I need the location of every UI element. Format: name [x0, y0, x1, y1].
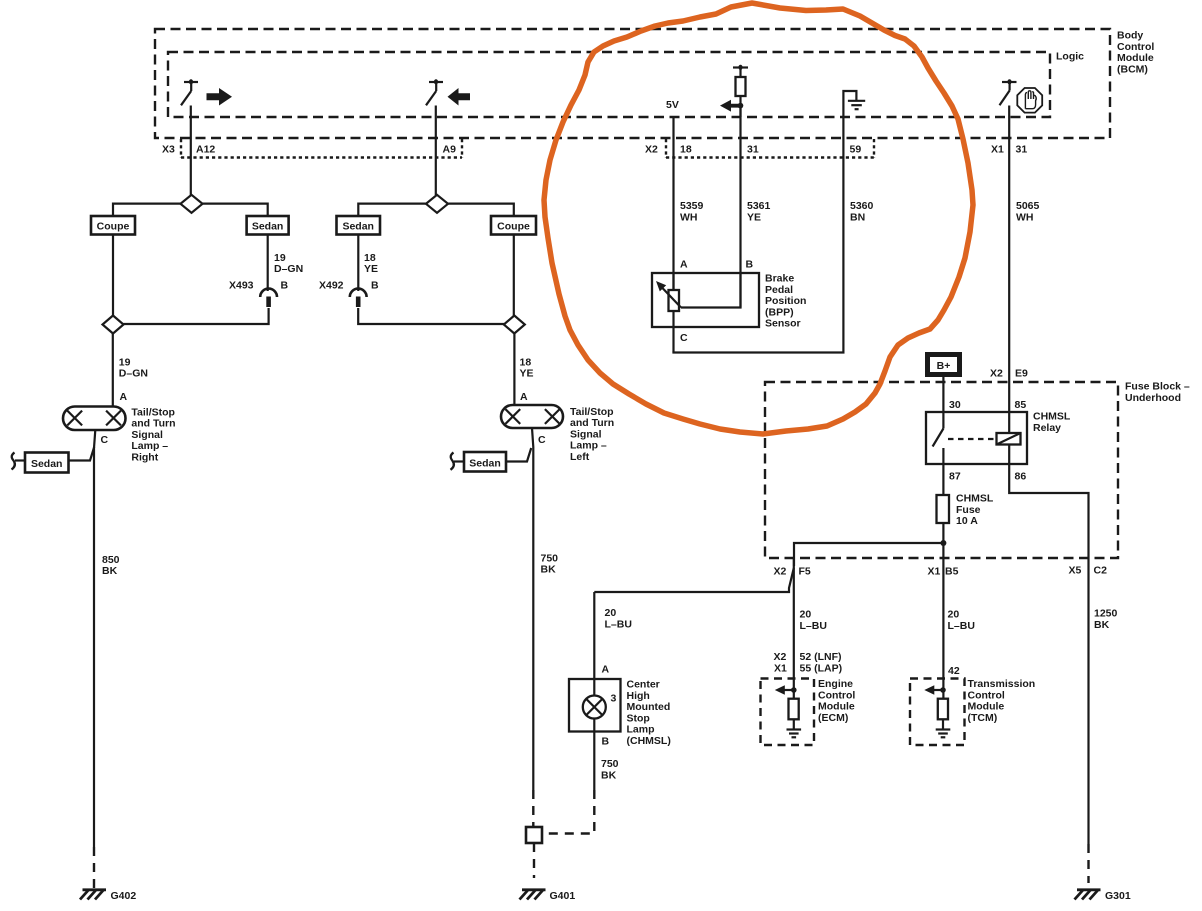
ground G402 — [80, 890, 136, 902]
BPP sensor label — [765, 273, 806, 330]
wire 850 BK lamp C to ground — [94, 430, 95, 847]
wire 20 L-BU to CHMSL lamp A — [593, 592, 595, 679]
splice diamond S101 (right-turn feed) — [181, 195, 203, 213]
svg-text:(ECM): (ECM) — [818, 712, 848, 724]
svg-text:CHMSL: CHMSL — [956, 493, 994, 505]
svg-text:B: B — [746, 259, 754, 271]
svg-text:WH: WH — [1016, 212, 1034, 224]
potentiometer in BPP sensor — [656, 273, 681, 353]
svg-text:Tail/Stop: Tail/Stop — [131, 406, 175, 418]
connector X2|E9 label — [990, 368, 1028, 380]
svg-text:WH: WH — [680, 212, 698, 224]
CHMSL lamp — [569, 664, 671, 748]
sedan box (right lamp branch) — [247, 216, 289, 235]
svg-text:B: B — [602, 736, 610, 748]
wire X2 F5 to ECM — [793, 558, 795, 699]
svg-text:B+: B+ — [937, 360, 951, 372]
arrow into node (signal sense) — [720, 100, 741, 112]
wire fuse to junction and TCM — [942, 523, 944, 699]
wire relay 86 to X5 C2 — [1009, 445, 1088, 559]
svg-text:18: 18 — [680, 144, 692, 156]
dashed lead to splice square — [532, 790, 534, 827]
svg-text:C: C — [101, 434, 109, 446]
sedan off-page box (left lamp C) — [451, 448, 532, 472]
svg-text:C: C — [680, 332, 688, 344]
svg-text:86: 86 — [1015, 471, 1027, 483]
resistor (ECM internal) — [789, 699, 799, 720]
svg-text:Relay: Relay — [1033, 422, 1061, 434]
svg-text:750: 750 — [601, 758, 619, 770]
tail/stop and turn signal lamp - right — [63, 406, 176, 463]
wire 31 hazard output — [1008, 106, 1010, 434]
svg-text:F5: F5 — [799, 566, 811, 578]
svg-text:and Turn: and Turn — [570, 417, 614, 429]
svg-text:87: 87 — [949, 471, 961, 483]
sedan off-page box (right lamp C) — [12, 447, 95, 473]
ECM pin labels — [774, 651, 843, 675]
svg-text:CHMSL: CHMSL — [1033, 411, 1071, 423]
svg-text:A: A — [120, 391, 128, 403]
svg-text:1250: 1250 — [1094, 608, 1118, 620]
svg-text:(BCM): (BCM) — [1117, 63, 1148, 75]
dashed lead square to G401 — [533, 843, 535, 878]
fuse CHMSL 10A — [937, 493, 994, 528]
wire 750 BK CHMSL B to splice — [593, 732, 595, 791]
wire X492 to splice S202 — [358, 308, 504, 324]
svg-text:A: A — [520, 391, 528, 403]
left arrow icon — [448, 88, 471, 106]
relay coil — [997, 433, 1021, 445]
resistor (TCM internal) — [938, 699, 948, 720]
splice diamond S202 — [504, 316, 525, 334]
svg-text:Sedan: Sedan — [252, 221, 284, 233]
svg-text:3: 3 — [611, 693, 617, 705]
connector X3 (BCM, left) — [162, 139, 462, 158]
connector labels at fuse block bottom — [774, 565, 1108, 578]
svg-text:Tail/Stop: Tail/Stop — [570, 406, 614, 418]
svg-text:Transmission: Transmission — [968, 678, 1036, 690]
wire 1250 BK (X5 C2 to G301) — [1087, 558, 1089, 844]
wire A12 from switch S1 — [190, 106, 192, 196]
wire 5361 YE (BPP B signal) — [739, 107, 741, 308]
svg-text:Sensor: Sensor — [765, 318, 801, 330]
wire 5360 BN (BPP C low ref) — [842, 117, 844, 353]
svg-text:(CHMSL): (CHMSL) — [627, 735, 671, 747]
svg-text:Right: Right — [131, 452, 158, 464]
svg-text:C2: C2 — [1094, 565, 1108, 577]
svg-text:X2: X2 — [645, 144, 658, 156]
module box BCM (Body Control Module) — [155, 29, 1154, 138]
svg-text:B5: B5 — [945, 566, 959, 578]
switch S2 left-turn (BCM internal) — [426, 79, 443, 105]
splice square S301 — [526, 827, 542, 843]
junction dot on wire 31 — [738, 103, 744, 109]
module box ECM — [761, 678, 856, 745]
wire 5065 WH (hazard to relay coil) — [1016, 200, 1040, 224]
svg-text:Module: Module — [818, 701, 855, 713]
svg-text:D–GN: D–GN — [119, 368, 148, 380]
svg-text:31: 31 — [1016, 144, 1028, 156]
svg-text:BK: BK — [541, 564, 557, 576]
svg-text:Control: Control — [818, 689, 855, 701]
svg-text:Brake: Brake — [765, 273, 794, 285]
svg-text:Coupe: Coupe — [497, 221, 530, 233]
svg-text:X3: X3 — [162, 144, 175, 156]
wire 5359 WH (5V to BPP A) — [672, 117, 674, 290]
svg-text:Signal: Signal — [570, 428, 602, 440]
svg-text:Fuse: Fuse — [956, 504, 981, 516]
svg-text:10 A: 10 A — [956, 515, 978, 527]
tail/stop and turn signal lamp - left — [501, 405, 614, 463]
svg-text:C: C — [538, 434, 546, 446]
svg-text:YE: YE — [364, 263, 378, 275]
module box TCM — [910, 678, 1035, 745]
svg-text:Lamp –: Lamp – — [131, 440, 168, 452]
splice diamond S201 (left-turn feed) — [426, 195, 448, 213]
splice diamond S102 — [103, 316, 124, 334]
wire coupe to splice S202 — [513, 235, 515, 317]
svg-text:YE: YE — [520, 368, 534, 380]
svg-text:E9: E9 — [1015, 368, 1028, 380]
wire to Coupe branch (right lamp) — [113, 204, 181, 216]
svg-text:85: 85 — [1015, 399, 1027, 411]
resistor R1 (BCM internal pull-up) — [733, 65, 748, 117]
svg-text:A: A — [602, 664, 610, 676]
module box Fuse Block - Underhood — [765, 381, 1190, 559]
svg-text:Lamp –: Lamp – — [570, 440, 607, 452]
wire 18 YE to left lamp pin A — [513, 334, 515, 406]
dashed lead to G301 — [1087, 844, 1089, 883]
right arrow icon — [207, 88, 233, 106]
wire X493 to splice S102 — [124, 308, 269, 324]
svg-text:X2: X2 — [990, 368, 1003, 380]
ground G301 — [1075, 890, 1131, 902]
svg-text:Sedan: Sedan — [31, 458, 63, 470]
svg-text:X2: X2 — [774, 566, 787, 578]
connector X2 (BCM, middle) — [645, 139, 874, 158]
svg-text:and Turn: and Turn — [131, 418, 175, 430]
switch S1 right-turn (BCM internal) — [181, 79, 198, 105]
svg-text:Fuse Block –: Fuse Block – — [1125, 381, 1190, 393]
svg-text:X2: X2 — [774, 651, 787, 663]
svg-text:L–BU: L–BU — [800, 620, 827, 632]
dashed lead CHMSL to splice square — [542, 790, 594, 834]
dashed lead to G402 — [93, 847, 95, 888]
svg-text:G301: G301 — [1105, 890, 1131, 902]
relay actuating link (dashed) — [948, 438, 996, 440]
wire 750 BK lamp C down — [532, 428, 533, 790]
svg-text:G402: G402 — [111, 890, 137, 902]
svg-text:BK: BK — [601, 770, 617, 782]
svg-text:5V: 5V — [666, 99, 679, 111]
svg-text:Sedan: Sedan — [469, 458, 501, 470]
wire A9 from switch S2 — [435, 106, 437, 196]
svg-text:A12: A12 — [196, 144, 215, 156]
svg-text:30: 30 — [949, 399, 961, 411]
TCM input arrow — [924, 685, 946, 695]
coupe box (right lamp branch) — [91, 216, 135, 235]
svg-text:X493: X493 — [229, 280, 254, 292]
svg-text:YE: YE — [747, 212, 761, 224]
svg-text:Underhood: Underhood — [1125, 392, 1181, 404]
svg-text:(BPP): (BPP) — [765, 306, 794, 318]
inline connector X492 — [319, 280, 379, 308]
svg-text:31: 31 — [747, 144, 759, 156]
ground (ECM internal) — [787, 719, 802, 737]
svg-text:D–GN: D–GN — [274, 263, 303, 275]
switch S3 hazard (BCM internal) — [1000, 79, 1017, 105]
connector X1 (BCM, right) — [991, 144, 1027, 156]
svg-text:A: A — [680, 259, 688, 271]
relay CHMSL — [926, 399, 1071, 483]
wire B+ to relay 30 — [942, 377, 944, 412]
wire junction to X2 F5 — [794, 543, 943, 566]
svg-text:55 (LAP): 55 (LAP) — [800, 663, 843, 675]
coupe box (left lamp branch) — [491, 216, 536, 235]
svg-text:5360: 5360 — [850, 200, 874, 212]
svg-text:B: B — [371, 280, 379, 292]
wire 19 D-GN to right lamp pin A — [112, 334, 114, 407]
svg-text:5065: 5065 — [1016, 200, 1040, 212]
wire coupe to splice diamond S102 — [112, 235, 114, 317]
svg-text:Lamp: Lamp — [627, 724, 655, 736]
svg-text:Sedan: Sedan — [342, 221, 374, 233]
svg-text:BK: BK — [102, 565, 118, 577]
logic box inside BCM — [168, 51, 1084, 118]
svg-text:Position: Position — [765, 295, 806, 307]
svg-text:L–BU: L–BU — [605, 619, 632, 631]
highlight loop (hand-drawn orange circle) — [544, 3, 973, 434]
ECM input arrow — [775, 685, 797, 695]
svg-text:Body: Body — [1117, 30, 1143, 42]
ground (TCM internal) — [936, 719, 951, 737]
svg-text:Pedal: Pedal — [765, 284, 793, 296]
ground G401 — [520, 890, 576, 902]
branch jog to CHMSL feed — [594, 568, 794, 592]
svg-text:B: B — [281, 280, 289, 292]
wire to Sedan branch (right lamp) — [203, 204, 268, 216]
BPP internal wire B to wiper — [681, 273, 741, 308]
sedan box (left lamp branch) — [337, 216, 381, 235]
wire to Coupe branch (left lamp) — [448, 204, 514, 216]
svg-text:X1: X1 — [928, 566, 941, 578]
svg-text:Coupe: Coupe — [97, 221, 130, 233]
svg-text:Logic: Logic — [1056, 51, 1084, 63]
wire 19 D-GN sedan to X493 — [267, 235, 269, 292]
svg-text:Module: Module — [968, 701, 1005, 713]
svg-text:20: 20 — [948, 609, 960, 621]
svg-text:BK: BK — [1094, 619, 1110, 631]
svg-text:G401: G401 — [550, 890, 576, 902]
svg-text:Stop: Stop — [627, 712, 650, 724]
svg-text:59: 59 — [850, 144, 862, 156]
inline connector X493 — [229, 280, 289, 308]
wire C to 59 (bottom run) — [672, 351, 844, 353]
svg-text:Engine: Engine — [818, 678, 853, 690]
svg-text:42: 42 — [948, 665, 960, 677]
svg-text:High: High — [627, 690, 650, 702]
ground (BCM internal, wire 59) — [843, 91, 865, 117]
B+ battery feed box — [928, 355, 960, 375]
svg-text:52 (LNF): 52 (LNF) — [800, 651, 842, 663]
svg-text:Left: Left — [570, 451, 590, 463]
wire 18 YE sedan to X492 — [357, 235, 359, 292]
svg-text:L–BU: L–BU — [948, 620, 975, 632]
hazard hand icon (octagon) — [1017, 88, 1042, 113]
svg-text:Center: Center — [627, 679, 660, 691]
svg-text:5359: 5359 — [680, 200, 704, 212]
svg-text:20: 20 — [605, 607, 617, 619]
junction node (fuse output) — [940, 540, 946, 546]
svg-text:Mounted: Mounted — [627, 701, 671, 713]
svg-text:(TCM): (TCM) — [968, 712, 998, 724]
svg-text:Module: Module — [1117, 52, 1154, 64]
BPP sensor box — [652, 273, 759, 327]
svg-text:BN: BN — [850, 212, 865, 224]
svg-text:A9: A9 — [443, 144, 457, 156]
svg-text:X492: X492 — [319, 280, 344, 292]
wire to Sedan branch (left lamp) — [358, 204, 426, 216]
svg-text:5361: 5361 — [747, 200, 771, 212]
svg-text:Control: Control — [1117, 41, 1154, 53]
svg-text:Control: Control — [968, 689, 1005, 701]
svg-text:X1: X1 — [991, 144, 1004, 156]
svg-text:20: 20 — [800, 609, 812, 621]
svg-text:X5: X5 — [1069, 565, 1082, 577]
svg-text:Signal: Signal — [131, 429, 163, 441]
svg-text:X1: X1 — [774, 663, 787, 675]
wire relay 87 to fuse — [942, 464, 944, 495]
relay contact — [942, 412, 944, 429]
